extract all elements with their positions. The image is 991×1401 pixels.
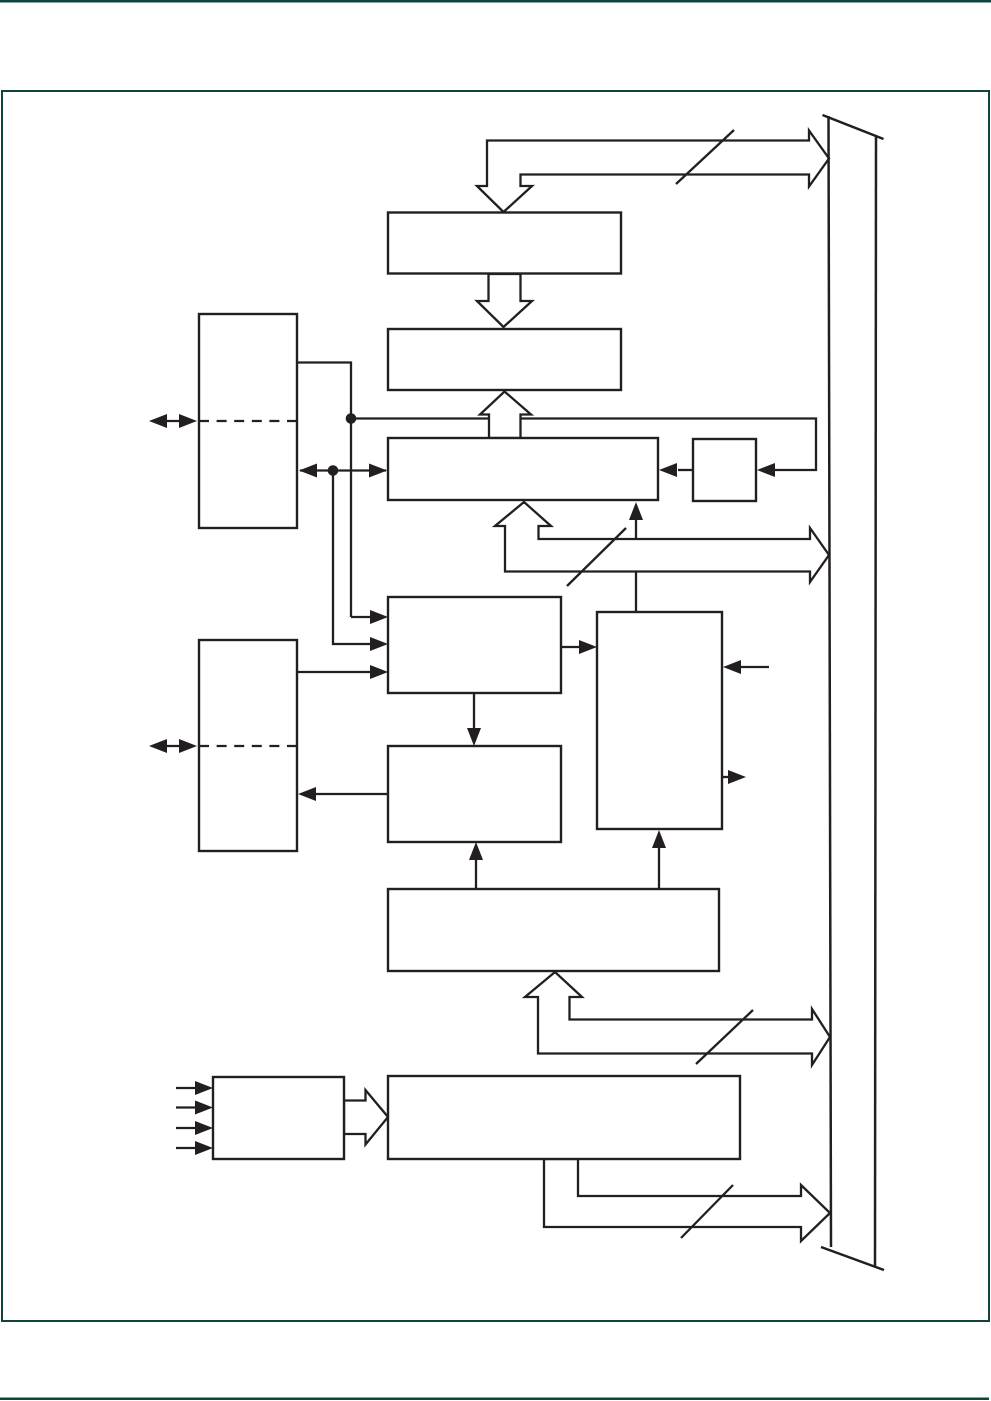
wire porta-ext double <box>163 420 184 422</box>
arrowhead wide-to-tall <box>652 830 666 848</box>
arrowhead input2 <box>195 1101 213 1115</box>
box7 <box>388 746 561 842</box>
junction dot1 <box>346 413 357 424</box>
bottom rule <box>0 1398 989 1401</box>
arrowhead into databox y617 <box>370 610 388 624</box>
box3 small <box>693 439 756 501</box>
arrowhead porta-ext-right <box>179 414 197 428</box>
arrowhead input3 <box>195 1121 213 1135</box>
top rule <box>0 0 991 3</box>
dashed line portA <box>199 420 297 422</box>
wire portb-to-databox <box>297 671 374 673</box>
arrowhead portb-ext-left <box>149 739 167 753</box>
bus bottom cap <box>821 1247 884 1270</box>
wire input3 <box>176 1127 198 1129</box>
wire vert-to-databox <box>351 616 374 618</box>
arrowhead stub-into-tallbox <box>723 660 741 674</box>
arrowhead tallbox-out <box>728 770 746 784</box>
arrowhead into smallbox right <box>757 463 775 477</box>
junction dot2 <box>328 465 339 476</box>
arrowhead into databox y644 <box>370 637 388 651</box>
wire dot2-down <box>333 471 374 645</box>
arrowhead into databox y672 <box>370 665 388 679</box>
arrowhead input4 <box>195 1141 213 1155</box>
box5 <box>388 597 561 693</box>
wire input4 <box>176 1147 198 1149</box>
arrowhead double control-right <box>369 464 387 478</box>
box8 wide <box>388 889 719 971</box>
arrowhead into control right <box>659 463 677 477</box>
dashed line portA inner <box>199 420 297 422</box>
block arrow top bent double <box>477 131 829 213</box>
wire wide-to-tall <box>658 846 660 889</box>
block arrow box9-box10 <box>344 1090 388 1145</box>
dashed line portB <box>199 745 297 747</box>
block arrow box10-bus bent <box>544 1159 830 1241</box>
arrowhead lower-to-portb <box>298 787 316 801</box>
box2 <box>388 329 621 390</box>
box6 tall <box>597 612 722 829</box>
wire dot1-to-right-elbow <box>351 419 816 471</box>
slash wide-bus arrow <box>696 1010 753 1064</box>
arrowhead input1 <box>195 1081 213 1095</box>
arrowhead tallbox-to-control <box>629 502 643 520</box>
arrowhead databox-to-lower <box>467 728 481 746</box>
arrowhead wide-to-lower <box>469 842 483 860</box>
arrowhead porta-ext-left <box>149 414 167 428</box>
slash control-bus arrow <box>567 528 626 586</box>
slash box10-bus arrow <box>681 1185 733 1238</box>
bus left line <box>829 116 832 1247</box>
arrowhead into tallbox left <box>579 640 597 654</box>
box4 control <box>388 438 658 500</box>
arrowhead double porta-left <box>299 464 317 478</box>
wire databox-to-tall <box>561 646 583 648</box>
wire lower-to-portb <box>314 793 388 795</box>
bus right line <box>875 136 876 1266</box>
wire input2 <box>176 1106 198 1108</box>
box10 <box>388 1076 740 1159</box>
wire tallbox-out <box>722 776 731 778</box>
wire porta-control double <box>300 469 386 471</box>
wire input1 <box>176 1087 198 1089</box>
wire portb-ext double <box>163 745 184 747</box>
box portA <box>199 314 297 528</box>
slash top arrow <box>676 130 734 184</box>
box portB <box>199 640 297 851</box>
block arrow control-bus bent double <box>495 502 829 582</box>
block arrow wide-bus bent <box>525 972 830 1065</box>
bus top cap <box>823 115 884 139</box>
dashed line portB inner <box>199 745 297 747</box>
block arrow control-box2 up <box>480 392 531 439</box>
wire databox-down <box>473 693 475 731</box>
wire stub-to-tallbox <box>739 666 769 668</box>
box9 <box>213 1077 344 1159</box>
wire wide-to-lower <box>475 858 477 889</box>
block arrow box1-box2 down <box>477 274 532 327</box>
redraw dashed segments over box borders <box>199 421 297 746</box>
box1 top <box>388 213 621 274</box>
wire smallbox-to-control <box>678 469 693 471</box>
wire tallbox-up <box>635 518 637 612</box>
arrowhead portb-ext-right <box>179 739 197 753</box>
wire portA-to-vert <box>297 363 351 618</box>
